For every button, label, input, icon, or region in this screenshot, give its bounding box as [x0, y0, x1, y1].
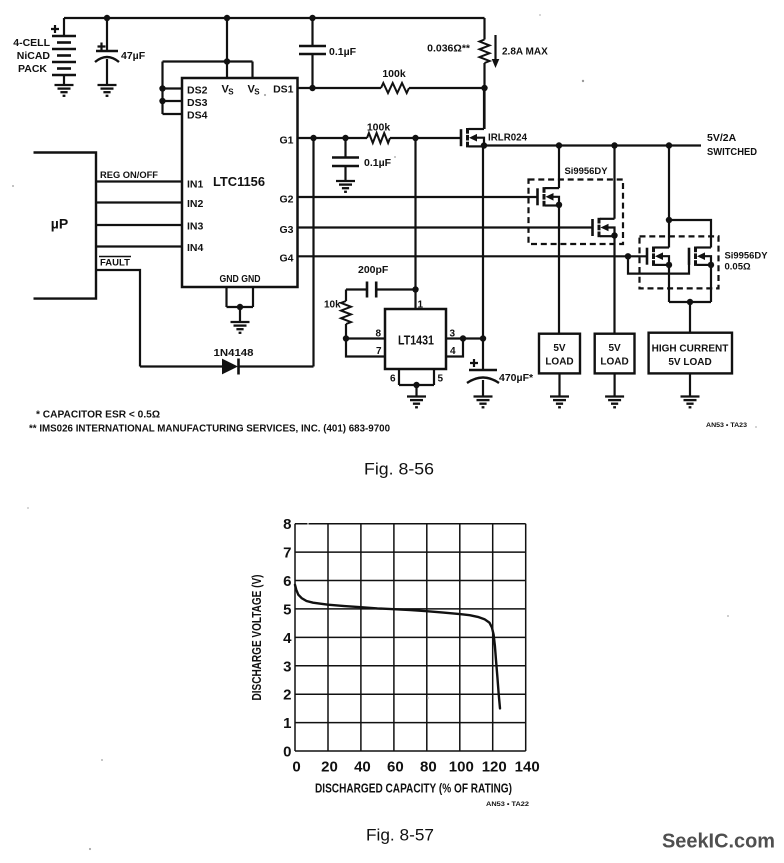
svg-text:0: 0	[283, 744, 291, 761]
svg-text:200pF: 200pF	[358, 264, 389, 276]
svg-text:REG ON/OFF: REG ON/OFF	[100, 170, 158, 181]
svg-text:AN53 • TA23: AN53 • TA23	[706, 422, 747, 429]
svg-text:5: 5	[283, 601, 291, 618]
svg-text:60: 60	[387, 759, 404, 776]
svg-text:IN2: IN2	[187, 198, 204, 210]
svg-text:0.1µF: 0.1µF	[329, 46, 357, 58]
svg-text:NiCAD: NiCAD	[17, 50, 51, 62]
svg-text:Si9956DY: Si9956DY	[565, 166, 609, 177]
svg-text:5V: 5V	[553, 343, 566, 354]
svg-text:* CAPACITOR ESR < 0.5Ω: * CAPACITOR ESR < 0.5Ω	[36, 410, 160, 421]
svg-text:3: 3	[283, 658, 291, 675]
svg-text:IN4: IN4	[187, 242, 204, 254]
svg-text:G4: G4	[279, 253, 293, 265]
svg-text:47µF: 47µF	[121, 50, 146, 62]
svg-text:5V LOAD: 5V LOAD	[668, 357, 711, 368]
svg-text:2: 2	[283, 687, 291, 704]
svg-text:LOAD: LOAD	[600, 357, 628, 368]
svg-text:4-CELL: 4-CELL	[13, 37, 50, 49]
svg-text:5V: 5V	[608, 343, 621, 354]
svg-text:4: 4	[283, 630, 292, 647]
svg-text:80: 80	[420, 759, 437, 776]
svg-text:S: S	[254, 88, 260, 97]
svg-text:6: 6	[283, 573, 291, 590]
svg-text:0: 0	[292, 759, 300, 776]
svg-text:1: 1	[283, 715, 291, 732]
svg-text:7: 7	[376, 346, 382, 357]
svg-text:40: 40	[354, 759, 371, 776]
svg-text:IN1: IN1	[187, 179, 204, 191]
svg-text:DS3: DS3	[187, 97, 208, 109]
svg-text:G1: G1	[279, 135, 293, 147]
svg-text:10k: 10k	[324, 300, 341, 311]
svg-text:6: 6	[390, 374, 396, 385]
svg-text:8: 8	[283, 516, 291, 533]
svg-text:DS4: DS4	[187, 110, 208, 122]
svg-text:1: 1	[418, 300, 424, 311]
svg-text:IN3: IN3	[187, 221, 204, 233]
svg-text:FAULT: FAULT	[100, 258, 130, 269]
svg-text:LTC1156: LTC1156	[213, 175, 265, 189]
svg-text:470µF*: 470µF*	[499, 372, 534, 384]
svg-text:5V/2A: 5V/2A	[707, 132, 737, 144]
svg-text:7: 7	[283, 545, 291, 562]
svg-text:20: 20	[321, 759, 338, 776]
svg-text:DS1: DS1	[273, 84, 294, 96]
svg-text:DISCHARGED CAPACITY (% OF RATI: DISCHARGED CAPACITY (% OF RATING)	[315, 782, 512, 796]
svg-text:DS2: DS2	[187, 85, 208, 97]
svg-text:5: 5	[438, 374, 444, 385]
svg-text:LT1431: LT1431	[398, 334, 434, 348]
svg-text:Fig. 8-56: Fig. 8-56	[364, 461, 434, 479]
svg-text:1N4148: 1N4148	[214, 347, 254, 359]
svg-text:DISCHARGE VOLTAGE (V): DISCHARGE VOLTAGE (V)	[250, 575, 264, 701]
svg-text:PACK: PACK	[18, 63, 47, 75]
svg-text:HIGH CURRENT: HIGH CURRENT	[652, 344, 729, 355]
svg-text:LOAD: LOAD	[545, 357, 573, 368]
svg-text:140: 140	[515, 759, 540, 776]
svg-text:G2: G2	[279, 194, 293, 206]
svg-text:Si9956DY: Si9956DY	[725, 251, 769, 262]
svg-text:GND GND: GND GND	[220, 273, 261, 285]
svg-text:IRLR024: IRLR024	[488, 133, 527, 144]
svg-text:0.1µF: 0.1µF	[364, 157, 392, 169]
svg-text:0.036Ω**: 0.036Ω**	[427, 43, 471, 55]
svg-text:AN53 • TA22: AN53 • TA22	[486, 801, 529, 808]
svg-text:4: 4	[450, 346, 456, 357]
svg-text:2.8A MAX: 2.8A MAX	[502, 47, 548, 58]
svg-text:100: 100	[449, 759, 474, 776]
svg-text:100k: 100k	[367, 122, 391, 134]
svg-text:** IMS026 INTERNATIONAL MANUFA: ** IMS026 INTERNATIONAL MANUFACTURING SE…	[29, 424, 390, 435]
svg-text:SeekIC.com: SeekIC.com	[662, 831, 775, 853]
svg-text:120: 120	[482, 759, 507, 776]
svg-text:100k: 100k	[382, 68, 406, 80]
svg-text:0.05Ω: 0.05Ω	[725, 262, 751, 273]
svg-text:S: S	[228, 88, 234, 97]
svg-text:µP: µP	[51, 216, 68, 232]
svg-text:Fig. 8-57: Fig. 8-57	[366, 827, 434, 845]
svg-text:SWITCHED: SWITCHED	[707, 146, 757, 158]
svg-text:G3: G3	[279, 224, 293, 236]
